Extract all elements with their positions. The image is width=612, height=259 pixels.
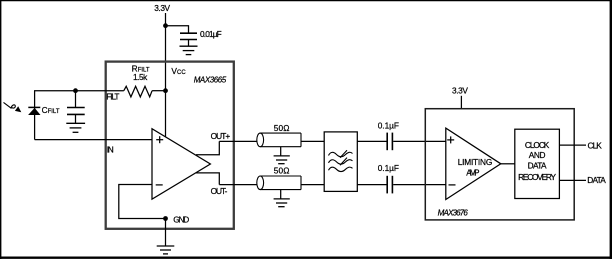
svg-text:3.3V: 3.3V bbox=[154, 3, 170, 13]
svg-text:AMP: AMP bbox=[466, 168, 480, 178]
filter wave 1 slash bbox=[340, 150, 347, 158]
svg-text:50Ω: 50Ω bbox=[274, 123, 290, 133]
minus input mark (limiting amp) bbox=[449, 184, 456, 186]
capacitor CFILT bbox=[67, 108, 85, 115]
wire amp bottom slope stub to OUT- bbox=[196, 173, 219, 185]
wire IN from photodiode to amp + input bbox=[35, 139, 152, 141]
svg-text:DATA: DATA bbox=[528, 160, 547, 170]
svg-text:RECOVERY: RECOVERY bbox=[518, 172, 556, 182]
svg-text:FILT: FILT bbox=[48, 109, 60, 115]
ground (MAX3665 GND) bbox=[157, 246, 175, 254]
wire cap2 to limiting amp - bbox=[393, 184, 446, 186]
svg-text:OUT-: OUT- bbox=[211, 186, 228, 196]
IC U2 box MAX3676 bbox=[425, 109, 574, 220]
wire cap to ground bbox=[188, 40, 190, 46]
wire filter to cap 1 bbox=[357, 140, 386, 142]
svg-text:OUT+: OUT+ bbox=[211, 131, 231, 141]
ground (coax 2) bbox=[274, 199, 290, 207]
capacitor 0.01uF bbox=[180, 33, 197, 39]
svg-text:LIMITING: LIMITING bbox=[458, 157, 493, 167]
op-amp U1 box MAX3665 bbox=[106, 62, 234, 229]
transmission line 50ohm (bottom coax) bbox=[257, 176, 301, 190]
svg-text:IN: IN bbox=[107, 145, 114, 155]
plus input mark (limiting amp) bbox=[447, 136, 454, 143]
svg-text:3.3V: 3.3V bbox=[452, 85, 468, 95]
ground (coax 1) bbox=[274, 156, 290, 164]
photodiode D1 bbox=[28, 91, 40, 140]
svg-text:DATA: DATA bbox=[587, 175, 606, 185]
plus input mark bbox=[156, 136, 163, 143]
light arrow into photodiode bbox=[4, 102, 22, 112]
transmission line 50ohm (top coax) bbox=[257, 133, 301, 147]
svg-text:AND: AND bbox=[529, 150, 546, 160]
node 3.3V (left supply) bbox=[154, 3, 170, 13]
wire OUT+ rail to coax 1 bbox=[219, 140, 257, 142]
svg-text:1.5k: 1.5k bbox=[133, 72, 148, 82]
wire CFILT to ground bbox=[75, 114, 77, 123]
node junction dot CFILT branch bbox=[73, 88, 78, 93]
wire branch to bypass cap bbox=[166, 26, 189, 33]
minus input mark bbox=[156, 184, 163, 186]
svg-text:GND: GND bbox=[173, 215, 189, 225]
limiting amp triangle bbox=[446, 128, 501, 199]
label CFILT bbox=[42, 105, 60, 115]
block CLOCK AND DATA RECOVERY bbox=[515, 129, 560, 198]
wire coax1 ground stub bbox=[280, 147, 282, 156]
wire DATA output bbox=[559, 179, 586, 181]
label CLOCK AND DATA RECOVERY bbox=[518, 140, 556, 182]
filter wave 2 slash bbox=[340, 158, 347, 166]
node junction dot at 3.3V branch bbox=[163, 23, 168, 28]
svg-text:CLK: CLK bbox=[588, 140, 603, 150]
wire amp top slope stub to OUT+ bbox=[196, 141, 219, 154]
wire filter to cap 2 bbox=[357, 184, 386, 186]
wire feedback loop from minus input to GND node bbox=[119, 185, 166, 219]
wire coax1 to filter bbox=[301, 140, 324, 142]
wire cap1 to limiting amp + bbox=[393, 140, 446, 142]
wire limiting amp to CDR bbox=[501, 163, 515, 165]
filter wave 3 bbox=[329, 167, 353, 171]
wire coax2 to filter bbox=[301, 184, 324, 186]
wire FILT from photodiode node into box bbox=[34, 90, 124, 92]
filter block bbox=[324, 132, 357, 192]
svg-text:MAX3665: MAX3665 bbox=[194, 75, 227, 84]
svg-text:50Ω: 50Ω bbox=[274, 165, 290, 175]
filter wave 2 bbox=[329, 160, 353, 164]
label LIMITING AMP bbox=[458, 157, 493, 178]
pin label VCC bbox=[171, 66, 186, 76]
ground (CFILT) bbox=[66, 123, 85, 132]
node GND junction dot bbox=[163, 216, 168, 221]
svg-text:0.01µF: 0.01µF bbox=[200, 29, 222, 39]
svg-text:0.1µF: 0.1µF bbox=[378, 121, 399, 131]
wire 3.3V to MAX3676 box bbox=[460, 96, 462, 109]
ground (bypass cap) bbox=[180, 46, 198, 54]
svg-text:MAX3676: MAX3676 bbox=[438, 209, 469, 218]
wire VCC vertical from 3.3V down into MAX3665 to amp bbox=[165, 13, 167, 137]
resistor RFILT 1.5k zigzag bbox=[124, 86, 152, 97]
svg-text:0.1µF: 0.1µF bbox=[378, 163, 399, 173]
wire OUT- rail to coax 2 bbox=[219, 184, 257, 186]
wire CLK output bbox=[559, 144, 586, 146]
wire resistor to VCC node bbox=[152, 90, 165, 92]
wire to CFILT bbox=[75, 91, 77, 107]
capacitor 0.1uF (bottom, series) bbox=[387, 176, 392, 194]
svg-text:CC: CC bbox=[177, 70, 186, 76]
svg-text:CLOCK: CLOCK bbox=[525, 140, 550, 150]
wire GND down out of box bbox=[165, 219, 167, 246]
label RFILT bbox=[132, 64, 150, 74]
capacitor 0.1uF (top, series) bbox=[387, 133, 392, 151]
wire coax2 ground stub bbox=[280, 190, 282, 199]
node junction dot resistor/VCC bbox=[163, 88, 168, 93]
svg-text:FILT: FILT bbox=[106, 91, 119, 101]
filter wave 1 bbox=[329, 152, 353, 156]
op-amp triangle (preamp) bbox=[152, 129, 210, 200]
